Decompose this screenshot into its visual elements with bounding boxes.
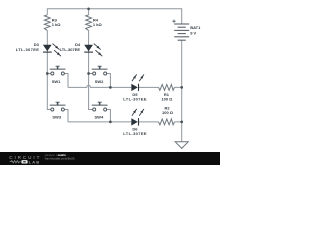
wire SW3 output to row B — [64, 110, 68, 122]
LED D6 — [131, 109, 144, 126]
node SW4-rowB junction — [109, 121, 112, 124]
wire row A with hop over column 2 — [68, 85, 182, 87]
wire SW1 input stub — [47, 73, 51, 75]
wire top rail — [47, 9, 181, 24]
svg-text:SW4: SW4 — [95, 114, 104, 119]
node rowB-battery junction — [180, 121, 183, 124]
svg-text:100 Ω: 100 Ω — [161, 96, 173, 101]
svg-text:jmslon /: jmslon / — [44, 153, 57, 157]
node column2-SW2 junction — [87, 72, 90, 75]
svg-text:LTL-307EE: LTL-307EE — [60, 47, 81, 52]
ground — [175, 142, 188, 149]
battery BAT1 — [174, 24, 189, 40]
wire column 1 — [47, 30, 51, 109]
svg-text:matrix: matrix — [58, 153, 67, 157]
svg-text:1 kΩ: 1 kΩ — [93, 22, 103, 27]
wire SW2 input stub — [89, 73, 93, 75]
footer bar — [0, 152, 220, 165]
LED D4 — [84, 44, 102, 57]
resistor R3 — [44, 15, 50, 31]
svg-text:LTL-307EE: LTL-307EE — [123, 96, 147, 101]
resistor R2 — [159, 119, 175, 125]
battery plus sign — [172, 20, 175, 23]
svg-text:1 kΩ: 1 kΩ — [52, 22, 62, 27]
LED D5 — [131, 74, 144, 91]
svg-text:LAB: LAB — [29, 159, 40, 164]
resistor R1 — [159, 85, 175, 91]
svg-text:LTL-307EE: LTL-307EE — [123, 131, 147, 136]
wire SW2 output to row A — [106, 74, 110, 88]
wire battery branch — [181, 40, 183, 142]
wire SW1 output to row A — [64, 74, 68, 88]
CircuitLab logo — [9, 155, 39, 165]
switch SW4 — [92, 102, 108, 111]
svg-text:9 V: 9 V — [190, 30, 196, 35]
svg-text:SW2: SW2 — [95, 79, 104, 84]
resistor R4 — [86, 15, 92, 31]
wire row B — [68, 121, 182, 123]
svg-text:100 Ω: 100 Ω — [162, 110, 174, 115]
svg-text:SW1: SW1 — [52, 79, 61, 84]
svg-text:LTL-307EE: LTL-307EE — [16, 47, 40, 52]
node rail-column2 junction — [87, 7, 90, 10]
node SW2-rowA junction — [109, 86, 112, 89]
node rowA-battery junction — [180, 86, 183, 89]
wire SW4 output to row B — [106, 110, 110, 122]
svg-text:SW3: SW3 — [52, 114, 61, 119]
svg-text:http://circuitlab.com/c/8rs25r: http://circuitlab.com/c/8rs25r — [45, 157, 75, 161]
LED D3 — [43, 44, 61, 57]
wire column 2 — [89, 9, 93, 110]
switch SW1 — [50, 66, 66, 75]
svg-text:BAT1: BAT1 — [190, 25, 201, 30]
switch SW2 — [92, 66, 108, 75]
switch SW3 — [50, 102, 66, 111]
node column1-SW1 junction — [46, 72, 49, 75]
